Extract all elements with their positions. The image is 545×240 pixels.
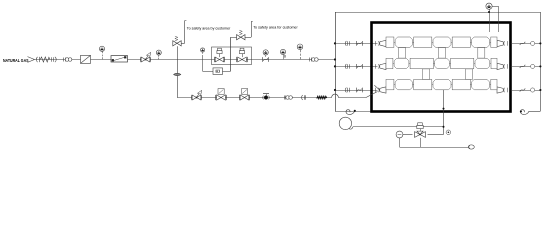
solenoid pilot valve SV3 [218,89,224,95]
burner nozzle pair 3 [375,88,377,93]
wire to control valve [428,134,444,136]
plug valve V3 [263,93,269,95]
union fitting [36,57,37,62]
burner return 1 [511,43,541,45]
igniter lead [374,85,380,90]
vent pigtail right [529,111,540,113]
node manifold branch 2 [334,65,336,67]
refractory row 3 [386,84,497,86]
burner return 3 [511,90,541,92]
flex row 1 [356,41,358,46]
label pointer [28,57,35,60]
wire burner manifold [335,12,337,111]
node manifold branch 3 [334,89,336,91]
union row 3 [345,88,346,93]
wire burner feed 1 [335,43,378,45]
pressure gauge PI-3 [201,48,205,52]
refractory row 1 [386,42,497,44]
flex row 3 [356,88,358,93]
wire blower air line [353,126,444,128]
combustion air blower [339,117,351,129]
flexible hose [40,57,50,62]
pressure transmitter PT [297,44,303,50]
furnace wall [372,23,511,112]
enclosure boundary [335,12,540,14]
wire vent 2 [245,37,251,39]
solenoid pilot valve SV4 [242,89,248,95]
refractory spacers [399,48,406,59]
pressure gauge PI-1 [99,46,104,51]
solenoid valve SV1 [217,51,222,54]
wire switch to vent drop [223,71,231,73]
flue gas sensor [486,3,492,9]
wire burner feed 2 [335,66,378,68]
wire pilot to burner [338,97,366,99]
pressure gauge PI-5 [280,49,285,54]
orifice fitting [174,73,181,75]
svg-text:To safety area by customer: To safety area by customer [187,25,231,30]
pressure regulator PCV [111,56,128,62]
vent pigtail left [346,110,355,115]
burner nozzle pair 2 [375,64,377,69]
wire bottom loop [399,138,401,147]
node air junction [443,126,445,128]
control valve CV [417,125,423,128]
pressure gauge PI-4 [263,50,268,55]
pressure gauge PI-2 [156,50,161,55]
solenoid valve SV2 [239,51,244,54]
pilot gas line [177,97,332,99]
wire pressure-switch loop [202,55,204,71]
flex hose pilot [317,96,327,98]
burner return 2 [511,66,541,68]
relief valve PSV-1 [177,46,179,59]
wire manifold drain [335,111,372,113]
node sensor tap [488,11,490,13]
union coupling [63,58,65,62]
wire furnace drain [443,90,445,135]
union row 1 [345,41,346,46]
node manifold branch 1 [334,42,336,44]
valve enclosure box [212,47,252,65]
svg-text:To safety area for customer: To safety area for customer [253,25,298,30]
wire valve to meter [403,134,413,136]
burner nozzle pair 1 [375,41,377,46]
node drain tap [443,108,445,110]
union coupling 2 [309,58,311,62]
wire vent 1 [181,43,184,45]
node manifold-main junction [334,58,336,60]
flow meter M [396,131,403,138]
wire: main gas line [35,59,336,61]
ball valve V2 [191,95,193,100]
relief valve PSV-2 [230,37,232,71]
wire pilot drop [177,60,179,98]
refractory row 2 [386,63,497,65]
indicator bottom [446,130,451,135]
capped end [468,145,474,149]
union row 2 [345,64,346,69]
flex row 2 [356,64,358,69]
gas filter F1 [81,55,91,63]
pressure switch PS [213,68,223,75]
ball valve V1 [140,57,142,62]
union fitting 2 [302,95,303,100]
wire burner feed 3 [335,90,378,92]
flex coupling [262,57,264,62]
svg-text:NATURAL GAS: NATURAL GAS [3,58,29,63]
crossover bump [332,94,339,97]
union coupling 3 [284,96,286,100]
